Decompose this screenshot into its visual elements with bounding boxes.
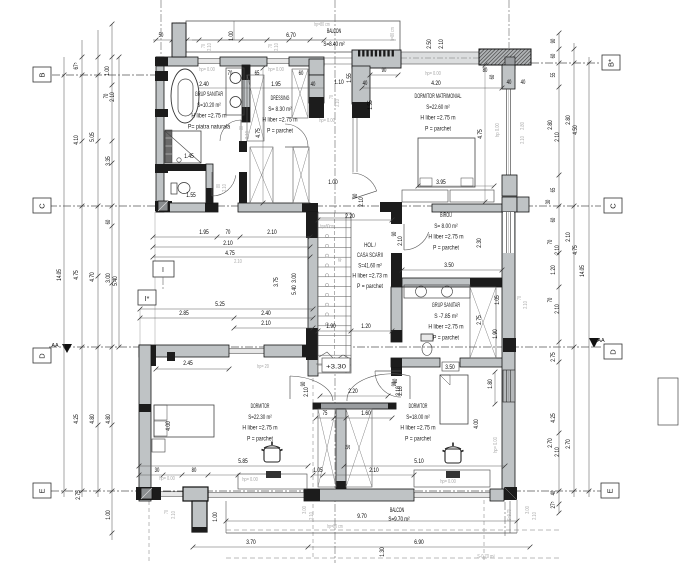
svg-text:hp= 0.00: hp= 0.00 [440,479,456,485]
svg-text:GRUP SANITAR: GRUP SANITAR [432,302,460,309]
svg-text:2.10: 2.10 [274,43,280,51]
svg-text:2.45: 2.45 [183,360,193,367]
svg-text:DORMITOR: DORMITOR [251,403,270,410]
svg-text:2.10: 2.10 [171,511,177,519]
svg-text:P = parchet: P = parchet [247,435,273,442]
svg-text:AA: AA [597,338,605,344]
svg-text:S=41.60 m²: S=41.60 m² [358,262,382,269]
svg-text:P = parchet: P = parchet [405,435,431,442]
svg-text:S=18.00 m²: S=18.00 m² [406,414,430,421]
svg-text:2.10: 2.10 [207,43,213,51]
svg-text:1.55: 1.55 [186,192,196,199]
svg-text:hp= 0.00: hp= 0.00 [319,118,335,124]
svg-text:4.80: 4.80 [89,414,96,424]
svg-text:1.90: 1.90 [492,329,499,339]
svg-text:2.10: 2.10 [109,92,116,102]
svg-text:2.30: 2.30 [476,238,483,248]
svg-text:P = parchet: P = parchet [433,244,459,251]
svg-text:HOL /: HOL / [364,242,376,249]
svg-text:3.35: 3.35 [105,156,112,166]
svg-text:2.10: 2.10 [397,236,404,246]
svg-text:4.25: 4.25 [550,413,557,423]
svg-text:5.25: 5.25 [215,301,225,308]
svg-text:90: 90 [550,38,557,43]
svg-text:14.05: 14.05 [579,265,586,277]
svg-text:1.55: 1.55 [367,100,374,110]
svg-text:H liber =2.75 m: H liber =2.75 m [242,425,278,432]
svg-text:2.40: 2.40 [199,81,209,88]
svg-text:2.10: 2.10 [554,304,561,314]
svg-text:AA: AA [51,343,59,349]
svg-text:2.20: 2.20 [348,388,358,395]
svg-text:30: 30 [545,199,552,204]
svg-text:1.00: 1.00 [328,179,338,186]
svg-text:D: D [38,353,47,359]
svg-text:5.40: 5.40 [112,276,119,286]
svg-text:67⁵: 67⁵ [73,62,80,69]
svg-text:3.50: 3.50 [445,364,455,371]
svg-text:I: I [162,267,164,274]
svg-text:P= piatra naturala: P= piatra naturala [188,123,231,130]
svg-text:70: 70 [547,239,554,244]
svg-text:DORMITOR MATRIMONIAL: DORMITOR MATRIMONIAL [415,93,462,100]
svg-text:4.75: 4.75 [572,245,579,255]
svg-text:1.30: 1.30 [379,547,386,557]
svg-text:hp=80 cm: hp=80 cm [314,22,330,28]
svg-text:2.10: 2.10 [554,245,561,255]
svg-text:BIROU: BIROU [440,212,452,219]
svg-text:90: 90 [391,231,398,236]
svg-text:H liber =2.75 m: H liber =2.75 m [191,113,227,120]
svg-text:P = parchet: P = parchet [433,334,459,341]
svg-text:3.00: 3.00 [291,273,298,283]
svg-text:60: 60 [299,70,304,77]
svg-text:H liber =2.73 m: H liber =2.73 m [352,273,388,280]
svg-text:2.80: 2.80 [520,122,526,130]
svg-text:B*: B* [607,59,616,67]
svg-text:40: 40 [363,80,368,87]
svg-text:60: 60 [550,217,557,222]
svg-text:90: 90 [382,67,387,74]
svg-text:C: C [38,203,47,209]
svg-text:S=8.40 m²: S=8.40 m² [323,41,344,48]
svg-text:3.95: 3.95 [436,179,446,186]
svg-text:E: E [606,488,615,493]
svg-text:1.95: 1.95 [271,81,281,88]
svg-text:GRUP SANITAR: GRUP SANITAR [195,91,223,98]
svg-text:P = parchet: P = parchet [425,125,451,132]
svg-text:4.75: 4.75 [255,128,262,138]
svg-text:2.10: 2.10 [222,184,228,192]
svg-text:4.80: 4.80 [105,414,112,424]
svg-text:hp= 0.00: hp= 0.00 [242,477,258,483]
svg-text:60: 60 [550,53,557,58]
svg-text:5.85: 5.85 [238,458,248,465]
svg-text:90: 90 [300,381,307,386]
svg-text:70: 70 [329,95,335,99]
svg-text:4.10: 4.10 [73,135,80,145]
svg-text:hp= 0.00: hp= 0.00 [268,67,284,73]
svg-text:70: 70 [164,510,170,514]
svg-text:4.25: 4.25 [73,414,80,424]
svg-text:40: 40 [507,79,512,86]
svg-text:BALCON: BALCON [327,28,341,35]
svg-text:2.10: 2.10 [369,467,379,474]
svg-text:80: 80 [192,467,197,474]
svg-text:1.60: 1.60 [361,410,371,417]
svg-text:2.70: 2.70 [547,438,554,448]
svg-text:65: 65 [550,187,557,192]
svg-text:5.40: 5.40 [291,285,298,295]
svg-text:5.05: 5.05 [89,132,96,142]
svg-text:H liber =2.75 m: H liber =2.75 m [262,117,298,124]
svg-text:1.05: 1.05 [313,467,323,474]
svg-text:2.10: 2.10 [554,447,561,457]
svg-text:70: 70 [517,296,523,300]
svg-text:2.10: 2.10 [532,512,538,520]
svg-text:4.75: 4.75 [73,270,80,280]
svg-text:1.10: 1.10 [334,79,344,86]
svg-text:2.10: 2.10 [565,232,572,242]
svg-text:2.80: 2.80 [565,115,572,125]
svg-text:90: 90 [392,378,399,383]
svg-text:S=22.30 m²: S=22.30 m² [248,414,272,421]
svg-text:S -7.85 m²: S -7.85 m² [434,313,458,320]
svg-text:+3.30: +3.30 [326,364,346,371]
svg-text:S=10.20 m²: S=10.20 m² [197,102,221,109]
svg-text:hp= 0.00: hp= 0.00 [159,476,175,482]
svg-text:up: up [337,258,343,262]
svg-text:DORMITOR: DORMITOR [409,403,428,410]
svg-text:D: D [609,349,618,355]
svg-text:P = parchet: P = parchet [357,283,383,290]
svg-text:hp= 0.00: hp= 0.00 [493,437,499,453]
svg-text:2.10: 2.10 [335,99,341,107]
svg-text:2.20: 2.20 [345,213,355,220]
svg-text:1.80: 1.80 [487,379,494,389]
svg-text:S=9.70: S=9.70 [507,509,513,521]
svg-text:I*: I* [145,296,150,303]
svg-text:1.55: 1.55 [346,73,353,83]
svg-text:2.10: 2.10 [267,229,277,236]
svg-text:4.70: 4.70 [89,272,96,282]
svg-text:2.50: 2.50 [426,39,433,49]
svg-text:H liber =2.75 m: H liber =2.75 m [420,115,456,122]
svg-text:55: 55 [550,72,557,77]
svg-text:S=9.70 m²: S=9.70 m² [388,516,409,523]
svg-text:1.00: 1.00 [212,512,219,522]
svg-text:hp 0.00: hp 0.00 [495,123,501,137]
svg-text:70: 70 [547,297,554,302]
svg-text:P = parchet: P = parchet [267,127,293,134]
svg-text:75: 75 [323,410,328,417]
svg-text:DRESSING: DRESSING [271,95,290,102]
svg-text:4.20: 4.20 [431,80,441,87]
svg-text:BALCON: BALCON [390,507,404,514]
svg-text:80: 80 [239,126,245,130]
svg-text:70: 70 [228,70,233,77]
svg-text:2.10: 2.10 [245,131,251,139]
svg-text:hp= 0.00: hp= 0.00 [425,71,441,77]
svg-text:40: 40 [311,81,316,88]
svg-text:4.50: 4.50 [572,125,579,135]
svg-text:1.90: 1.90 [326,323,336,330]
svg-text:1.05: 1.05 [494,295,501,305]
svg-text:h=80 cm: h=80 cm [390,27,396,41]
svg-text:80: 80 [483,67,488,74]
svg-text:2.10: 2.10 [520,136,526,144]
svg-text:3.00: 3.00 [302,506,308,514]
svg-text:CASA SCARII: CASA SCARII [357,252,383,259]
svg-text:S-0.70 m²: S-0.70 m² [477,554,495,560]
svg-text:S= 8.30 m²: S= 8.30 m² [268,106,292,113]
svg-text:70: 70 [226,229,231,236]
svg-text:S= 8.00 m²: S= 8.00 m² [434,223,458,230]
svg-text:6.70: 6.70 [286,32,296,39]
svg-text:2.10: 2.10 [234,259,242,265]
svg-text:3.75: 3.75 [273,277,280,287]
svg-text:hp=80cm: hp=80cm [320,224,334,230]
svg-text:5.10: 5.10 [414,458,424,465]
svg-text:1.00: 1.00 [104,66,111,76]
svg-text:3.00: 3.00 [105,273,112,283]
svg-text:3.50: 3.50 [444,262,454,269]
svg-text:3.70: 3.70 [246,539,256,546]
svg-text:14.05: 14.05 [56,269,63,281]
svg-text:H liber =2.75 m: H liber =2.75 m [428,324,464,331]
svg-text:2.10: 2.10 [395,386,402,396]
svg-text:4.75: 4.75 [477,129,484,139]
svg-text:2.80: 2.80 [547,120,554,130]
svg-text:30: 30 [155,467,160,474]
svg-text:2.10: 2.10 [303,387,310,397]
svg-text:hp= 20: hp= 20 [257,364,269,370]
svg-text:4.00: 4.00 [165,421,172,431]
svg-text:1.20: 1.20 [550,265,557,275]
svg-text:2.10: 2.10 [438,39,445,49]
svg-text:hp=80 cm: hp=80 cm [327,524,343,530]
svg-text:1.95: 1.95 [199,229,209,236]
svg-text:2.75: 2.75 [476,315,483,325]
svg-text:60: 60 [105,219,112,224]
svg-text:1.00: 1.00 [105,510,112,520]
svg-text:50: 50 [345,444,352,449]
svg-text:27⁵: 27⁵ [550,501,557,508]
svg-text:B: B [38,72,47,77]
svg-text:2.75: 2.75 [550,352,557,362]
svg-text:1.20: 1.20 [361,323,371,330]
svg-text:1.45: 1.45 [184,153,194,160]
svg-text:60: 60 [489,74,496,79]
svg-text:2.75: 2.75 [75,490,82,500]
svg-text:2.10: 2.10 [358,197,365,207]
svg-text:9.70: 9.70 [357,513,367,520]
svg-text:50: 50 [159,32,164,39]
svg-text:hp= 0.00: hp= 0.00 [199,67,215,73]
svg-text:2.70: 2.70 [565,439,572,449]
svg-text:H liber =2.75 m: H liber =2.75 m [428,234,464,241]
svg-text:2.10: 2.10 [554,132,561,142]
svg-text:2.10: 2.10 [261,320,271,327]
svg-text:2.10: 2.10 [523,301,529,309]
svg-text:3.00: 3.00 [525,506,531,514]
svg-text:65: 65 [255,70,260,77]
svg-text:S=22.60 m²: S=22.60 m² [426,104,450,111]
svg-text:40: 40 [521,79,526,86]
svg-text:4.75: 4.75 [225,250,235,257]
svg-text:4.00: 4.00 [473,419,480,429]
svg-text:2.40: 2.40 [261,310,271,317]
svg-text:H liber =2.75 m: H liber =2.75 m [400,425,436,432]
svg-text:6.90: 6.90 [414,539,424,546]
svg-text:E: E [38,488,47,493]
svg-text:C: C [609,203,618,209]
svg-text:2.10: 2.10 [309,512,315,520]
svg-text:2.85: 2.85 [179,310,189,317]
svg-text:2.10: 2.10 [223,240,233,247]
svg-text:40: 40 [550,490,557,495]
